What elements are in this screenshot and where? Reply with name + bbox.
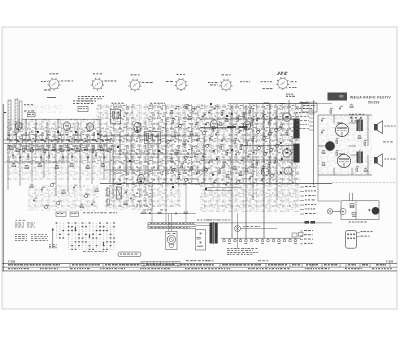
tube V4a triode <box>283 113 291 121</box>
lower-left components <box>30 186 33 188</box>
circuit texture mid IF <box>113 104 200 185</box>
switch contact dots <box>56 222 58 223</box>
output transformer T4 <box>357 152 359 164</box>
output transformer T3 <box>357 120 359 132</box>
voltage selector circle <box>340 209 346 215</box>
grid caption <box>83 250 86 253</box>
hatched parts <box>226 115 228 117</box>
tube V2 envelope <box>210 120 217 129</box>
speaker LS1 <box>374 124 377 130</box>
ratio detector transformer dark core B <box>294 144 299 162</box>
small box near strip <box>302 103 317 112</box>
resistor R6 <box>44 149 46 153</box>
connector box <box>346 231 357 249</box>
IF core bar A <box>227 126 236 128</box>
IF box T2 <box>145 131 161 144</box>
wires above dial band <box>140 213 196 215</box>
node H <box>4 112 6 113</box>
phase splitter dark disc <box>325 141 334 150</box>
mid cluster components <box>170 112 173 114</box>
antenna coil L3 <box>20 101 23 128</box>
IF box T1 <box>111 109 121 124</box>
tube socket V1 ECC85 <box>49 79 59 89</box>
rectifier parts <box>350 204 354 206</box>
tube V4b triode <box>283 149 291 157</box>
circuit texture mid lower <box>105 185 153 210</box>
tube V3m envelope <box>243 121 250 130</box>
speaker LS2 <box>374 157 377 163</box>
wire <box>200 100 310 200</box>
dial cord lines <box>148 222 196 224</box>
bus terminals <box>223 239 226 242</box>
antenna coil L2 <box>15 99 18 133</box>
dial lamp assembly <box>166 231 177 249</box>
mixer cluster <box>202 115 204 117</box>
lower terminal labels 2 <box>300 230 303 232</box>
resistor R14 <box>107 150 110 152</box>
circuit texture right top <box>300 101 315 116</box>
top node wire <box>248 103 332 105</box>
chassis bus <box>221 237 301 239</box>
circuit texture output stage <box>318 115 372 177</box>
wire <box>4 119 113 150</box>
lower resistor row <box>12 165 15 167</box>
resistor R8 <box>60 150 63 152</box>
note text under sockets <box>47 97 56 99</box>
tube V4c diode <box>261 168 269 176</box>
ratio detector transformer dark core A <box>294 119 299 138</box>
tube V1b envelope <box>63 122 70 131</box>
fuse boxes <box>305 221 310 224</box>
legend text block 3 <box>49 244 51 247</box>
tone network <box>321 119 323 121</box>
switch table header boxes <box>56 212 66 216</box>
note block bottom middle <box>227 247 229 250</box>
svg-text:F 256: F 256 <box>386 259 394 263</box>
tube V2a envelope <box>87 123 94 131</box>
dashed continuation line <box>332 182 396 184</box>
resistor R2 <box>16 150 19 152</box>
tube V3b envelope <box>138 174 145 184</box>
printed circuit label box <box>118 252 141 257</box>
legend text block 1 <box>16 219 18 222</box>
circuit texture mixer <box>200 104 300 185</box>
coupling caps top <box>350 116 352 118</box>
arrow pointer <box>52 229 54 248</box>
tube V3 envelope <box>134 122 141 132</box>
svg-text:50/299: 50/299 <box>368 100 380 104</box>
lower terminal labels <box>300 186 304 188</box>
left border wire <box>2 104 4 271</box>
UKW box label <box>28 113 36 117</box>
bus small boxes <box>292 233 297 237</box>
electrolytic chain <box>107 188 109 196</box>
detector wires <box>205 187 242 189</box>
logo box <box>328 93 348 101</box>
dial cord vertical <box>237 213 239 248</box>
wire <box>318 115 372 175</box>
vertical drops to band <box>151 185 153 223</box>
circuit texture left front-end <box>7 119 113 131</box>
resistor R4 <box>30 150 33 152</box>
coil in T2 <box>147 134 149 141</box>
strip row1 text <box>8 264 11 265</box>
power label <box>349 221 351 224</box>
tube socket V5 EL84 <box>221 80 231 90</box>
resistor R3 <box>23 148 25 152</box>
connector labels <box>357 232 360 233</box>
motor pulley <box>235 226 241 232</box>
resistor R9 <box>68 147 70 151</box>
switch contact grid <box>56 223 58 239</box>
band texture <box>150 222 153 225</box>
resistor R10 <box>76 150 79 152</box>
tube socket V4 EABC80 <box>176 80 186 90</box>
resistor R5 <box>37 148 40 150</box>
coil in T1 <box>113 112 115 119</box>
tube V4d diode <box>284 167 292 175</box>
output to power wire <box>317 175 319 201</box>
terminal labels upper <box>296 107 298 110</box>
svg-text:F 256: F 256 <box>8 259 16 263</box>
capacitor row C1-C8 <box>12 154 14 156</box>
tube V1a envelope <box>16 122 22 130</box>
wire drops <box>7 144 9 191</box>
tube socket V2 ECH81 <box>93 79 103 89</box>
component box right of lamp <box>196 230 206 251</box>
drive transformer dark bars <box>210 223 213 244</box>
resistor R12 <box>92 149 94 153</box>
svg-text:WEGA RADIO FESTIV: WEGA RADIO FESTIV <box>350 95 391 99</box>
tube socket V6 EM80 <box>278 78 288 88</box>
wire <box>333 193 379 219</box>
antenna coil L1 <box>8 100 11 130</box>
strip notes above <box>186 259 189 262</box>
output tube V5b bottom <box>337 154 350 167</box>
IF box labels <box>112 102 114 105</box>
pilot lamp <box>327 209 332 214</box>
speaker mid label <box>383 141 386 144</box>
strip row2 text <box>8 268 10 269</box>
tube socket V3 EF89 <box>130 80 140 90</box>
resistor R11 <box>84 149 87 151</box>
resistor R13 <box>100 149 103 151</box>
agc line <box>4 161 66 163</box>
terminal strip divider <box>313 100 315 185</box>
IF core bar B <box>239 126 248 128</box>
circuit texture left lower <box>28 185 98 211</box>
revision mini table <box>141 262 180 265</box>
mains capacitor dark disc <box>372 207 380 215</box>
resistor R7 <box>52 149 55 151</box>
bereich label block <box>73 100 75 103</box>
circuit texture detector lower <box>200 185 300 212</box>
title strip lines <box>2 262 397 264</box>
label Antenne <box>24 103 26 106</box>
resistor R1 <box>10 148 13 150</box>
output tube V5 top <box>335 123 348 136</box>
legend text block 2 <box>15 233 17 236</box>
wire <box>100 119 204 183</box>
